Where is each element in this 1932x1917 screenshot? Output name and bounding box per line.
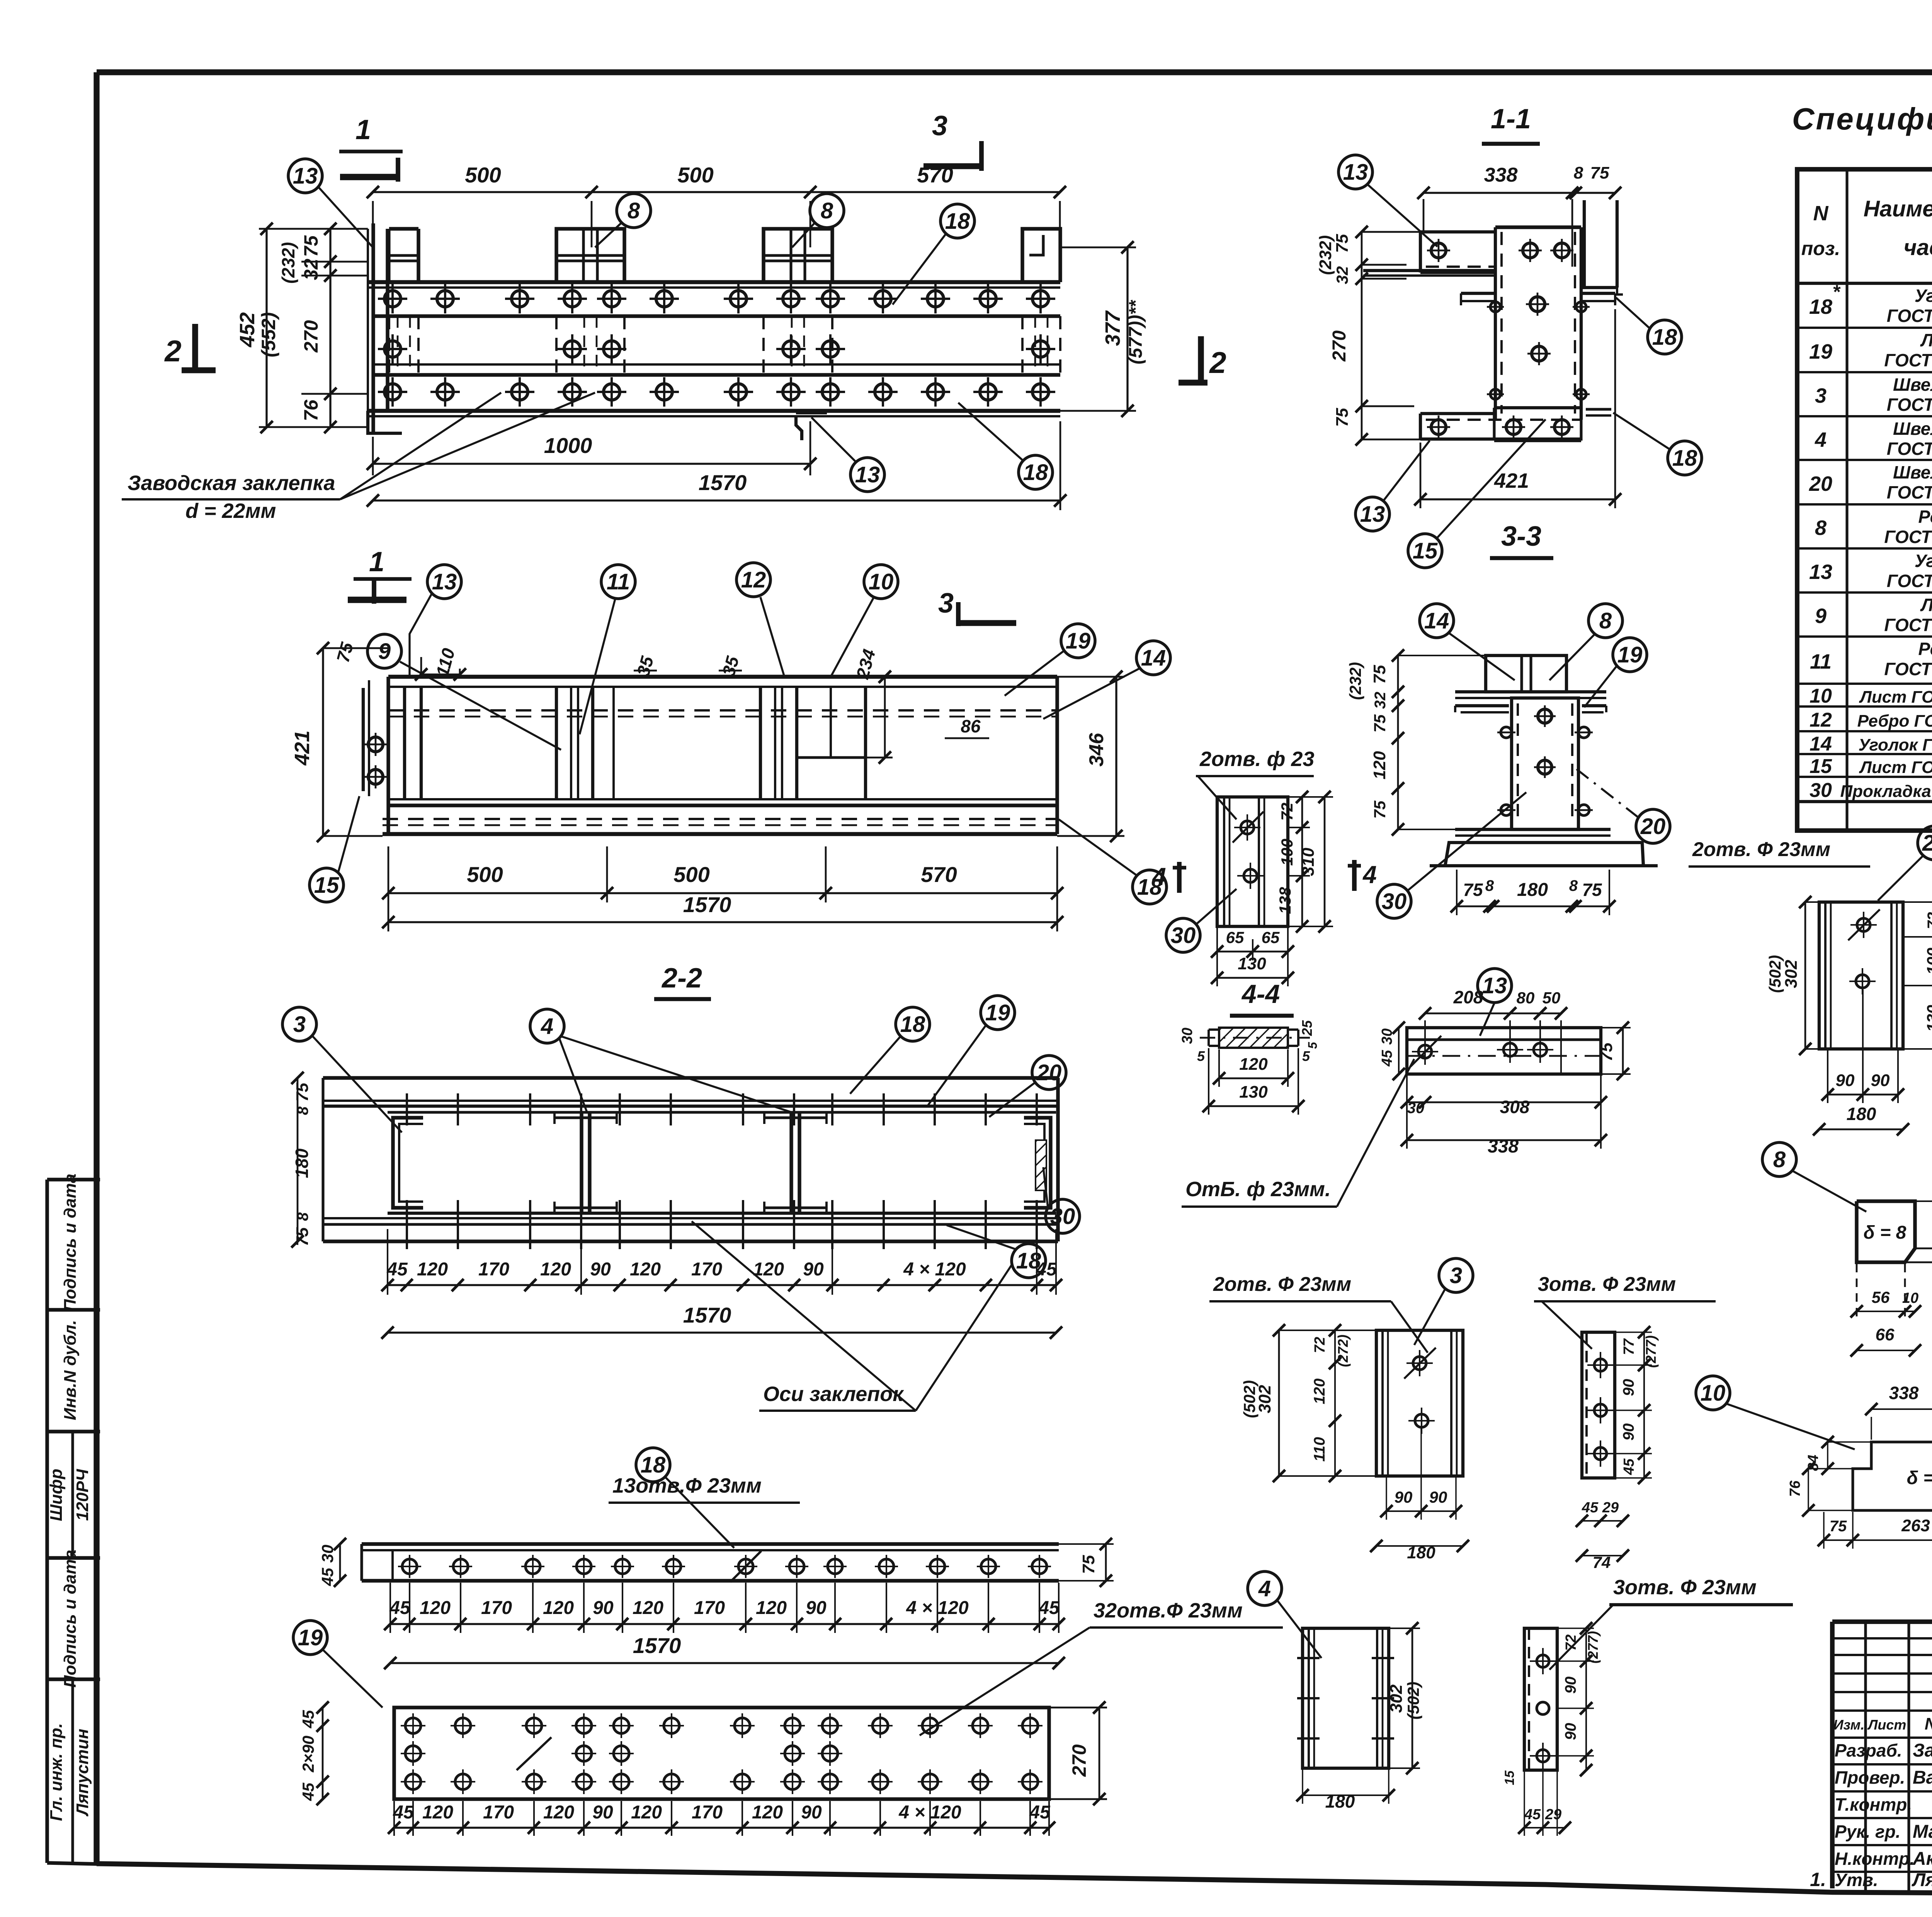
svg-text:570: 570	[917, 163, 953, 187]
stamp value 120RCh	[73, 1469, 92, 1521]
section 3-3 central column with rivets	[1512, 698, 1578, 829]
svg-text:3отв. Ф 23мм: 3отв. Ф 23мм	[1613, 1576, 1757, 1599]
section 1-1 central column	[1495, 227, 1581, 420]
view 1 stiffener block 8 at left end	[389, 229, 418, 282]
section 1-1 callout 18 right lower	[1613, 413, 1702, 475]
section 1-1 mid wings angle 18	[1461, 293, 1615, 305]
section 2-2 right channel poz 20 with plate 30	[1024, 1118, 1051, 1208]
svg-text:90: 90	[1562, 1723, 1579, 1740]
svg-text:75: 75	[1333, 408, 1352, 427]
spec row 10 list	[1810, 685, 1932, 707]
spec row 18 ugolok	[1809, 281, 1932, 326]
svg-text:2: 2	[164, 334, 181, 368]
svg-text:Разраб.: Разраб.	[1835, 1740, 1902, 1760]
detail 4 bottom dim 180	[1296, 1769, 1395, 1811]
detail 20 holes	[1848, 909, 1880, 994]
section 3-3 callout 14	[1420, 604, 1515, 680]
svg-text:1570: 1570	[699, 470, 747, 495]
detail 30 callout 30	[1166, 889, 1236, 952]
spec table grid	[1797, 169, 1932, 831]
view 1 section mark 3 top	[923, 111, 981, 171]
svg-text:76: 76	[300, 399, 322, 421]
svg-text:10: 10	[869, 569, 894, 594]
svg-text:15: 15	[1810, 755, 1832, 778]
section 2-2 bottom plate 18/19	[323, 1106, 1058, 1241]
svg-text:45: 45	[1038, 1598, 1060, 1618]
detail 3 inner left dims 72 (272) 120 110	[1311, 1324, 1351, 1482]
spec row 15 list	[1810, 755, 1932, 778]
svg-text:45: 45	[299, 1710, 317, 1728]
svg-text:377: 377	[1101, 310, 1124, 346]
detail 8 bottom dims 56 10 66	[1850, 1264, 1921, 1357]
plate 19 rivet holes middle row	[401, 1741, 842, 1766]
svg-text:Ребро ГОСТ 19903-74: Ребро ГОСТ 19903-74	[1857, 712, 1932, 730]
svg-text:302: 302	[1255, 1385, 1274, 1413]
svg-text:13: 13	[1809, 560, 1832, 584]
svg-text:45: 45	[1621, 1458, 1637, 1475]
svg-text:Наименование: Наименование	[1864, 196, 1932, 221]
plate 18 right dim 75	[1059, 1538, 1114, 1587]
detail 8 right dims 56 10 66	[1915, 1195, 1932, 1268]
svg-text:170: 170	[481, 1598, 512, 1618]
section 2-2 callout 20	[989, 1056, 1066, 1117]
svg-text:75: 75	[300, 235, 322, 257]
section 1-1 callout 18 right upper	[1616, 298, 1682, 354]
svg-text:20: 20	[1036, 1060, 1062, 1085]
svg-text:ГОСТ 8509-72: ГОСТ 8509-72	[1887, 306, 1932, 326]
svg-text:8: 8	[1569, 877, 1578, 894]
svg-text:18: 18	[1652, 325, 1677, 350]
detail 30 bottom dims 65 65 130	[1211, 928, 1294, 986]
plate 18 plan outline	[362, 1544, 1059, 1581]
detail 8 plate outline with chamfer	[1857, 1201, 1932, 1262]
svg-text:120: 120	[1311, 1379, 1328, 1405]
handwritten mark 1 near title block	[1810, 1869, 1826, 1890]
section 1-1 side bolts on column edges	[1487, 302, 1590, 399]
svg-text:Н.контр.: Н.контр.	[1835, 1849, 1915, 1869]
detail 3 label 2otv F23mm	[1209, 1273, 1428, 1353]
view 1 hidden stiffener dashed lines in web	[389, 316, 1060, 375]
svg-text:13: 13	[855, 462, 880, 487]
view 1 beam top flange line	[368, 282, 1060, 288]
plate A right dims 77 (277) 90 90 45	[1615, 1326, 1659, 1484]
svg-text:30: 30	[1382, 889, 1407, 914]
svg-text:75: 75	[1079, 1555, 1098, 1574]
detail 10 delta=8 label	[1907, 1468, 1932, 1488]
svg-text:180: 180	[1847, 1104, 1876, 1124]
view 2 dim 86 and 346 right	[945, 671, 1124, 842]
section 3-3 section mark 4 left	[1151, 862, 1186, 893]
section 2-2 top plate 18/19	[323, 1078, 1058, 1241]
svg-text:75: 75	[1590, 163, 1609, 182]
section 2-2 dim 1570	[381, 1303, 1062, 1339]
plate 19 label 32 otv 23mm	[920, 1599, 1283, 1735]
detail 10 left dims 84 76	[1787, 1436, 1870, 1517]
svg-text:32: 32	[1372, 692, 1389, 709]
svg-text:Захарова: Захарова	[1913, 1740, 1932, 1761]
detail 13 right dim 75	[1597, 1021, 1631, 1080]
section 2-2 callout 18 top	[850, 1007, 930, 1094]
svg-text:120: 120	[633, 1598, 663, 1618]
section 3-3 callout 20 with label 2otv	[1577, 769, 1870, 867]
svg-text:1.: 1.	[1810, 1869, 1826, 1890]
svg-text:4 × 120: 4 × 120	[903, 1259, 966, 1280]
view 2 dim 421 left	[291, 642, 388, 842]
svg-text:90: 90	[806, 1598, 827, 1618]
svg-text:5: 5	[1197, 1048, 1205, 1064]
svg-text:Лист ГОСТ 19903-74: Лист ГОСТ 19903-74	[1859, 758, 1932, 777]
detail 10 top dim 338	[1865, 1383, 1932, 1510]
plate B holes	[1530, 1648, 1556, 1769]
svg-text:15: 15	[314, 873, 339, 898]
svg-text:9: 9	[378, 639, 391, 664]
svg-text:1570: 1570	[683, 1303, 731, 1327]
svg-text:ОтБ. ф 23мм.: ОтБ. ф 23мм.	[1185, 1178, 1331, 1201]
svg-text:120: 120	[420, 1598, 451, 1618]
section 3-3 bottom flange and base	[1430, 829, 1658, 866]
detail 13 bottom dims 30 308 338	[1401, 1075, 1607, 1157]
svg-text:45: 45	[299, 1783, 317, 1801]
svg-text:10: 10	[1810, 685, 1832, 707]
svg-text:Васильева: Васильева	[1913, 1767, 1932, 1788]
svg-text:75: 75	[1371, 800, 1389, 819]
svg-text:80: 80	[1517, 989, 1535, 1007]
svg-text:N: N	[1813, 202, 1829, 225]
plate 18 label 13 otv 23mm	[609, 1474, 800, 1503]
svg-text:частей: частей	[1904, 235, 1932, 260]
svg-text:18: 18	[1809, 295, 1832, 318]
section 1-1 title	[1482, 104, 1540, 144]
view 1 callout 13 top	[288, 159, 373, 247]
view 1 leader zavodskaya zaklepka	[122, 393, 595, 523]
svg-text:180: 180	[292, 1148, 312, 1178]
view 1 dimension 1000	[367, 421, 816, 475]
svg-text:13: 13	[293, 163, 318, 189]
detail 4 right dim 302 (502)	[1387, 1622, 1422, 1774]
spec row 11 rebro	[1810, 639, 1932, 679]
svg-text:Уголок: Уголок	[1915, 551, 1932, 571]
svg-text:170: 170	[483, 1802, 514, 1823]
detail 20 left dim (502) 302	[1766, 896, 1819, 1055]
view 2 callout 19	[1005, 624, 1095, 696]
detail 3 left dim (502) 302	[1240, 1324, 1376, 1482]
svg-text:66: 66	[1876, 1325, 1895, 1344]
detail 30 right dim chain 72 100 138 310	[1276, 791, 1333, 933]
view 2 bottom dims 500 500 570 1570	[382, 846, 1063, 931]
svg-text:120: 120	[756, 1598, 787, 1618]
plate A bottom dims 45 29 74	[1576, 1500, 1629, 1571]
svg-text:3: 3	[932, 111, 947, 141]
detail 13 callout 13	[1478, 969, 1512, 1036]
svg-text:90: 90	[1620, 1423, 1637, 1441]
detail 13 top dims 208 80 50	[1419, 987, 1567, 1074]
svg-text:452: 452	[236, 312, 259, 347]
svg-text:поз.: поз.	[1801, 238, 1840, 259]
svg-text:72: 72	[1563, 1634, 1579, 1651]
stamp value Lyapustin	[73, 1729, 92, 1817]
plate 19 callout 19	[293, 1621, 383, 1708]
view 2 beam outline	[383, 677, 1057, 834]
detail 3 callout	[1414, 1258, 1473, 1345]
svg-text:25: 25	[1299, 1020, 1315, 1036]
view 1 left end angle 13 verticals	[368, 223, 388, 433]
svg-text:Инв.N дубл.: Инв.N дубл.	[61, 1320, 80, 1420]
section 3-3 flange lines	[1455, 692, 1606, 698]
svg-text:15: 15	[1413, 538, 1438, 564]
svg-text:120: 120	[543, 1802, 574, 1823]
view 1 right dimension 377 (577)	[1060, 241, 1146, 417]
svg-text:19: 19	[1617, 642, 1643, 667]
svg-text:110: 110	[1311, 1437, 1328, 1462]
svg-text:(502): (502)	[1766, 955, 1784, 993]
title block grid	[1832, 1622, 1932, 1897]
section 2-2 rivet axis tick marks	[407, 1093, 1037, 1249]
svg-text:3: 3	[293, 1012, 306, 1037]
svg-text:270: 270	[300, 320, 322, 353]
title block signature rows labels	[1833, 1714, 1932, 1890]
svg-text:120: 120	[631, 1802, 662, 1823]
svg-text:4: 4	[1815, 428, 1827, 451]
spec row 8 rebro	[1815, 507, 1932, 547]
svg-text:180: 180	[1407, 1543, 1435, 1562]
svg-text:2отв. ф 23: 2отв. ф 23	[1199, 747, 1315, 771]
svg-text:180: 180	[1325, 1791, 1355, 1811]
svg-text:2отв. Ф 23мм: 2отв. Ф 23мм	[1213, 1273, 1351, 1296]
svg-text:310: 310	[1299, 848, 1318, 876]
svg-text:30: 30	[1171, 923, 1196, 948]
svg-text:500: 500	[677, 163, 713, 187]
svg-text:421: 421	[1494, 469, 1529, 492]
plate 18 leader arrow on hole	[730, 1551, 761, 1582]
svg-text:Швеллер 18: Швеллер 18	[1893, 462, 1932, 482]
plate 19 right dim 270	[1049, 1701, 1107, 1805]
spec row 30 prokladka	[1810, 779, 1932, 802]
svg-text:ГОСТ 8240-72: ГОСТ 8240-72	[1887, 439, 1932, 459]
svg-text:19: 19	[1066, 628, 1091, 654]
section 4-4 title	[1230, 979, 1294, 1016]
svg-text:(277): (277)	[1643, 1335, 1659, 1368]
svg-text:1: 1	[369, 546, 384, 577]
svg-text:5: 5	[1306, 1042, 1320, 1049]
svg-text:302: 302	[1782, 960, 1801, 988]
svg-text:120: 120	[1239, 1055, 1268, 1074]
svg-text:30: 30	[1050, 1204, 1075, 1229]
svg-text:90: 90	[1395, 1488, 1413, 1506]
svg-text:72: 72	[1925, 912, 1932, 930]
svg-text:500: 500	[467, 862, 503, 887]
stamp label Gl inzh pr	[47, 1723, 66, 1821]
section 2-2 middle double channels poz 4 left	[554, 1112, 617, 1213]
plate A outline	[1582, 1332, 1615, 1478]
svg-text:263: 263	[1901, 1516, 1930, 1535]
spec row 9 list	[1815, 595, 1932, 635]
spec row 4 shveller	[1815, 419, 1932, 459]
section 2-2 bottom dimension chain	[381, 1229, 1062, 1295]
svg-text:Швеллер 18: Швеллер 18	[1893, 375, 1932, 395]
stamp label Inv N dubl	[61, 1320, 80, 1420]
section 3-3 side bolts	[1497, 727, 1593, 815]
svg-text:ГОСТ 8240-72: ГОСТ 8240-72	[1887, 395, 1932, 415]
view 2 callout 11	[580, 565, 635, 734]
svg-text:29: 29	[1545, 1806, 1561, 1823]
svg-text:10: 10	[1701, 1381, 1726, 1406]
section 1-1 top left angle 13 piece	[1420, 232, 1495, 272]
svg-text:ГОСТ 8509-72: ГОСТ 8509-72	[1887, 571, 1932, 591]
view 2 callout 10	[831, 565, 898, 677]
section 3-3 section mark 4 right	[1348, 860, 1377, 891]
svg-text:Лист ГОСТ 19903-74: Лист ГОСТ 19903-74	[1859, 688, 1932, 707]
svg-text:30: 30	[1179, 1028, 1196, 1044]
svg-text:120: 120	[540, 1259, 571, 1280]
detail 3 holes	[1404, 1348, 1436, 1434]
svg-text:δ = 8: δ = 8	[1864, 1222, 1906, 1243]
svg-text:(232): (232)	[1346, 662, 1364, 700]
svg-text:4: 4	[1151, 863, 1166, 890]
svg-text:75: 75	[1582, 880, 1602, 900]
section 1-1 callout 13 top	[1338, 155, 1437, 247]
view 1 left dimension chain 75 32 270 76	[259, 223, 368, 433]
svg-text:170: 170	[694, 1598, 725, 1618]
view 1 dimension 1570	[367, 421, 1066, 510]
svg-text:76: 76	[1787, 1480, 1803, 1497]
svg-text:Лист: Лист	[1920, 330, 1932, 350]
detail 30 plate outline	[1217, 797, 1288, 926]
stamp label Shifr	[47, 1469, 66, 1521]
detail 20 bottom dims 90 90 180	[1813, 989, 1909, 1136]
svg-text:138: 138	[1276, 887, 1294, 914]
svg-text:13: 13	[1360, 502, 1385, 527]
svg-text:8: 8	[1773, 1147, 1786, 1172]
plate 19 rivet holes top row	[401, 1713, 1043, 1738]
svg-text:(232): (232)	[1316, 235, 1335, 275]
svg-text:Прокладка ГОСТ19903-74: Прокладка ГОСТ19903-74	[1840, 782, 1932, 801]
spec row 19 list	[1809, 330, 1932, 370]
section 1-1 bottom dim 421	[1414, 309, 1621, 508]
view 1 stiffener block 8 mid-right	[764, 229, 832, 282]
svg-text:170: 170	[691, 1259, 722, 1280]
svg-text:4: 4	[541, 1014, 553, 1039]
view 1 left overall dimension 452 (552)	[236, 223, 279, 433]
detail 13 left dims 30 45	[1379, 1021, 1405, 1080]
svg-text:13отв.Ф 23мм: 13отв.Ф 23мм	[612, 1474, 762, 1497]
svg-text:75: 75	[1597, 1042, 1616, 1061]
svg-text:50: 50	[1543, 989, 1561, 1007]
detail 10 bottom dims 75 263	[1818, 1512, 1932, 1549]
section 1-1 left flange lines 32	[1363, 271, 1495, 276]
svg-text:Ляпустин: Ляпустин	[1912, 1870, 1932, 1890]
svg-text:Лист: Лист	[1920, 595, 1932, 615]
svg-text:13: 13	[1482, 973, 1507, 998]
view 1 callout 8 right	[792, 194, 844, 247]
svg-text:8: 8	[628, 198, 640, 223]
svg-text:65: 65	[1226, 928, 1244, 947]
svg-text:570: 570	[921, 862, 957, 887]
view 1 section mark top (1)	[339, 114, 403, 182]
svg-text:77: 77	[1621, 1338, 1637, 1355]
section 2-2 callout 3	[282, 1007, 402, 1132]
svg-text:3: 3	[1450, 1263, 1462, 1288]
svg-text:12: 12	[1810, 709, 1832, 731]
svg-text:130: 130	[1239, 1083, 1268, 1102]
svg-text:74: 74	[1593, 1553, 1611, 1571]
svg-text:(552): (552)	[258, 312, 279, 358]
svg-text:29: 29	[1602, 1500, 1619, 1516]
section 1-1 bottom band with angles	[1420, 408, 1611, 441]
svg-text:90: 90	[1871, 1071, 1890, 1090]
detail 13 angle outline	[1407, 1028, 1601, 1074]
section 4-4 dims	[1179, 1020, 1320, 1115]
svg-text:30: 30	[1379, 1028, 1395, 1045]
svg-text:19: 19	[985, 1000, 1010, 1025]
view 1 poz13 angle bottom middle	[796, 413, 827, 440]
section 2-2 left channel poz 3	[393, 1118, 423, 1208]
svg-text:120: 120	[543, 1598, 574, 1618]
section 1-1 left dim chain	[1316, 226, 1420, 446]
svg-text:100: 100	[1923, 948, 1932, 975]
svg-text:75: 75	[1463, 880, 1483, 900]
section 2-2 callout 19	[927, 996, 1015, 1106]
svg-text:346: 346	[1085, 733, 1108, 767]
section 3-3 title	[1490, 521, 1553, 558]
plate 18 bottom dimension chain	[384, 1583, 1065, 1633]
view 1 section mark 3 bottom	[938, 588, 1016, 626]
svg-text:90: 90	[1620, 1379, 1637, 1396]
svg-text:120: 120	[422, 1802, 453, 1823]
plate 18 rivet holes row	[398, 1555, 1051, 1578]
svg-text:90: 90	[1836, 1071, 1855, 1090]
spec row 13 ugolok	[1809, 551, 1932, 591]
svg-text:1570: 1570	[633, 1633, 681, 1658]
section 2-2 label osi zaklepok	[692, 1221, 1012, 1411]
plate A label 3otv F23mm	[1534, 1273, 1716, 1349]
svg-text:N докум.: N докум.	[1925, 1714, 1932, 1733]
svg-text:11: 11	[1810, 650, 1832, 673]
svg-text:45: 45	[1582, 1500, 1599, 1516]
svg-text:45: 45	[1029, 1802, 1051, 1823]
spec row 20 shveller	[1809, 462, 1932, 502]
svg-text:8: 8	[1599, 608, 1612, 633]
svg-text:12: 12	[741, 567, 766, 592]
view 1 callout 18	[893, 204, 975, 305]
svg-text:4: 4	[1362, 861, 1377, 889]
svg-text:3: 3	[938, 588, 954, 619]
svg-text:86: 86	[961, 716, 981, 736]
detail 3 channel outline	[1376, 1330, 1463, 1476]
svg-text:18: 18	[945, 209, 970, 234]
view 2 callout 18 right	[1059, 819, 1167, 904]
section 2-2 left dim labels 75 8 180 8 75	[291, 1072, 312, 1248]
svg-text:δ = 8: δ = 8	[1907, 1468, 1932, 1488]
plate 18 left dims 30 45	[318, 1538, 346, 1587]
view 1 section mark bottom (1)	[348, 546, 412, 604]
svg-text:Акулова: Акулова	[1912, 1849, 1932, 1869]
svg-text:2-2: 2-2	[661, 963, 702, 994]
view 1 bottom flange lines	[368, 411, 1060, 416]
svg-text:75: 75	[1333, 234, 1352, 253]
svg-text:Оси заклепок: Оси заклепок	[763, 1382, 904, 1406]
svg-text:90: 90	[592, 1802, 613, 1823]
svg-text:90: 90	[590, 1259, 611, 1280]
svg-text:ГОСТ19903-74: ГОСТ19903-74	[1884, 527, 1932, 547]
svg-text:ГОСТ19903-74: ГОСТ19903-74	[1884, 615, 1932, 635]
detail 8 callout	[1762, 1142, 1866, 1212]
section 4-4 hatched plate	[1219, 1028, 1288, 1048]
detail 3 bottom dims 90 90 180	[1370, 1428, 1469, 1562]
svg-text:14: 14	[1424, 608, 1449, 633]
plate 19 left dims 45 2x90 45	[299, 1701, 329, 1805]
view 1 callout 13 bottom	[811, 417, 884, 492]
svg-text:14: 14	[1141, 645, 1166, 671]
